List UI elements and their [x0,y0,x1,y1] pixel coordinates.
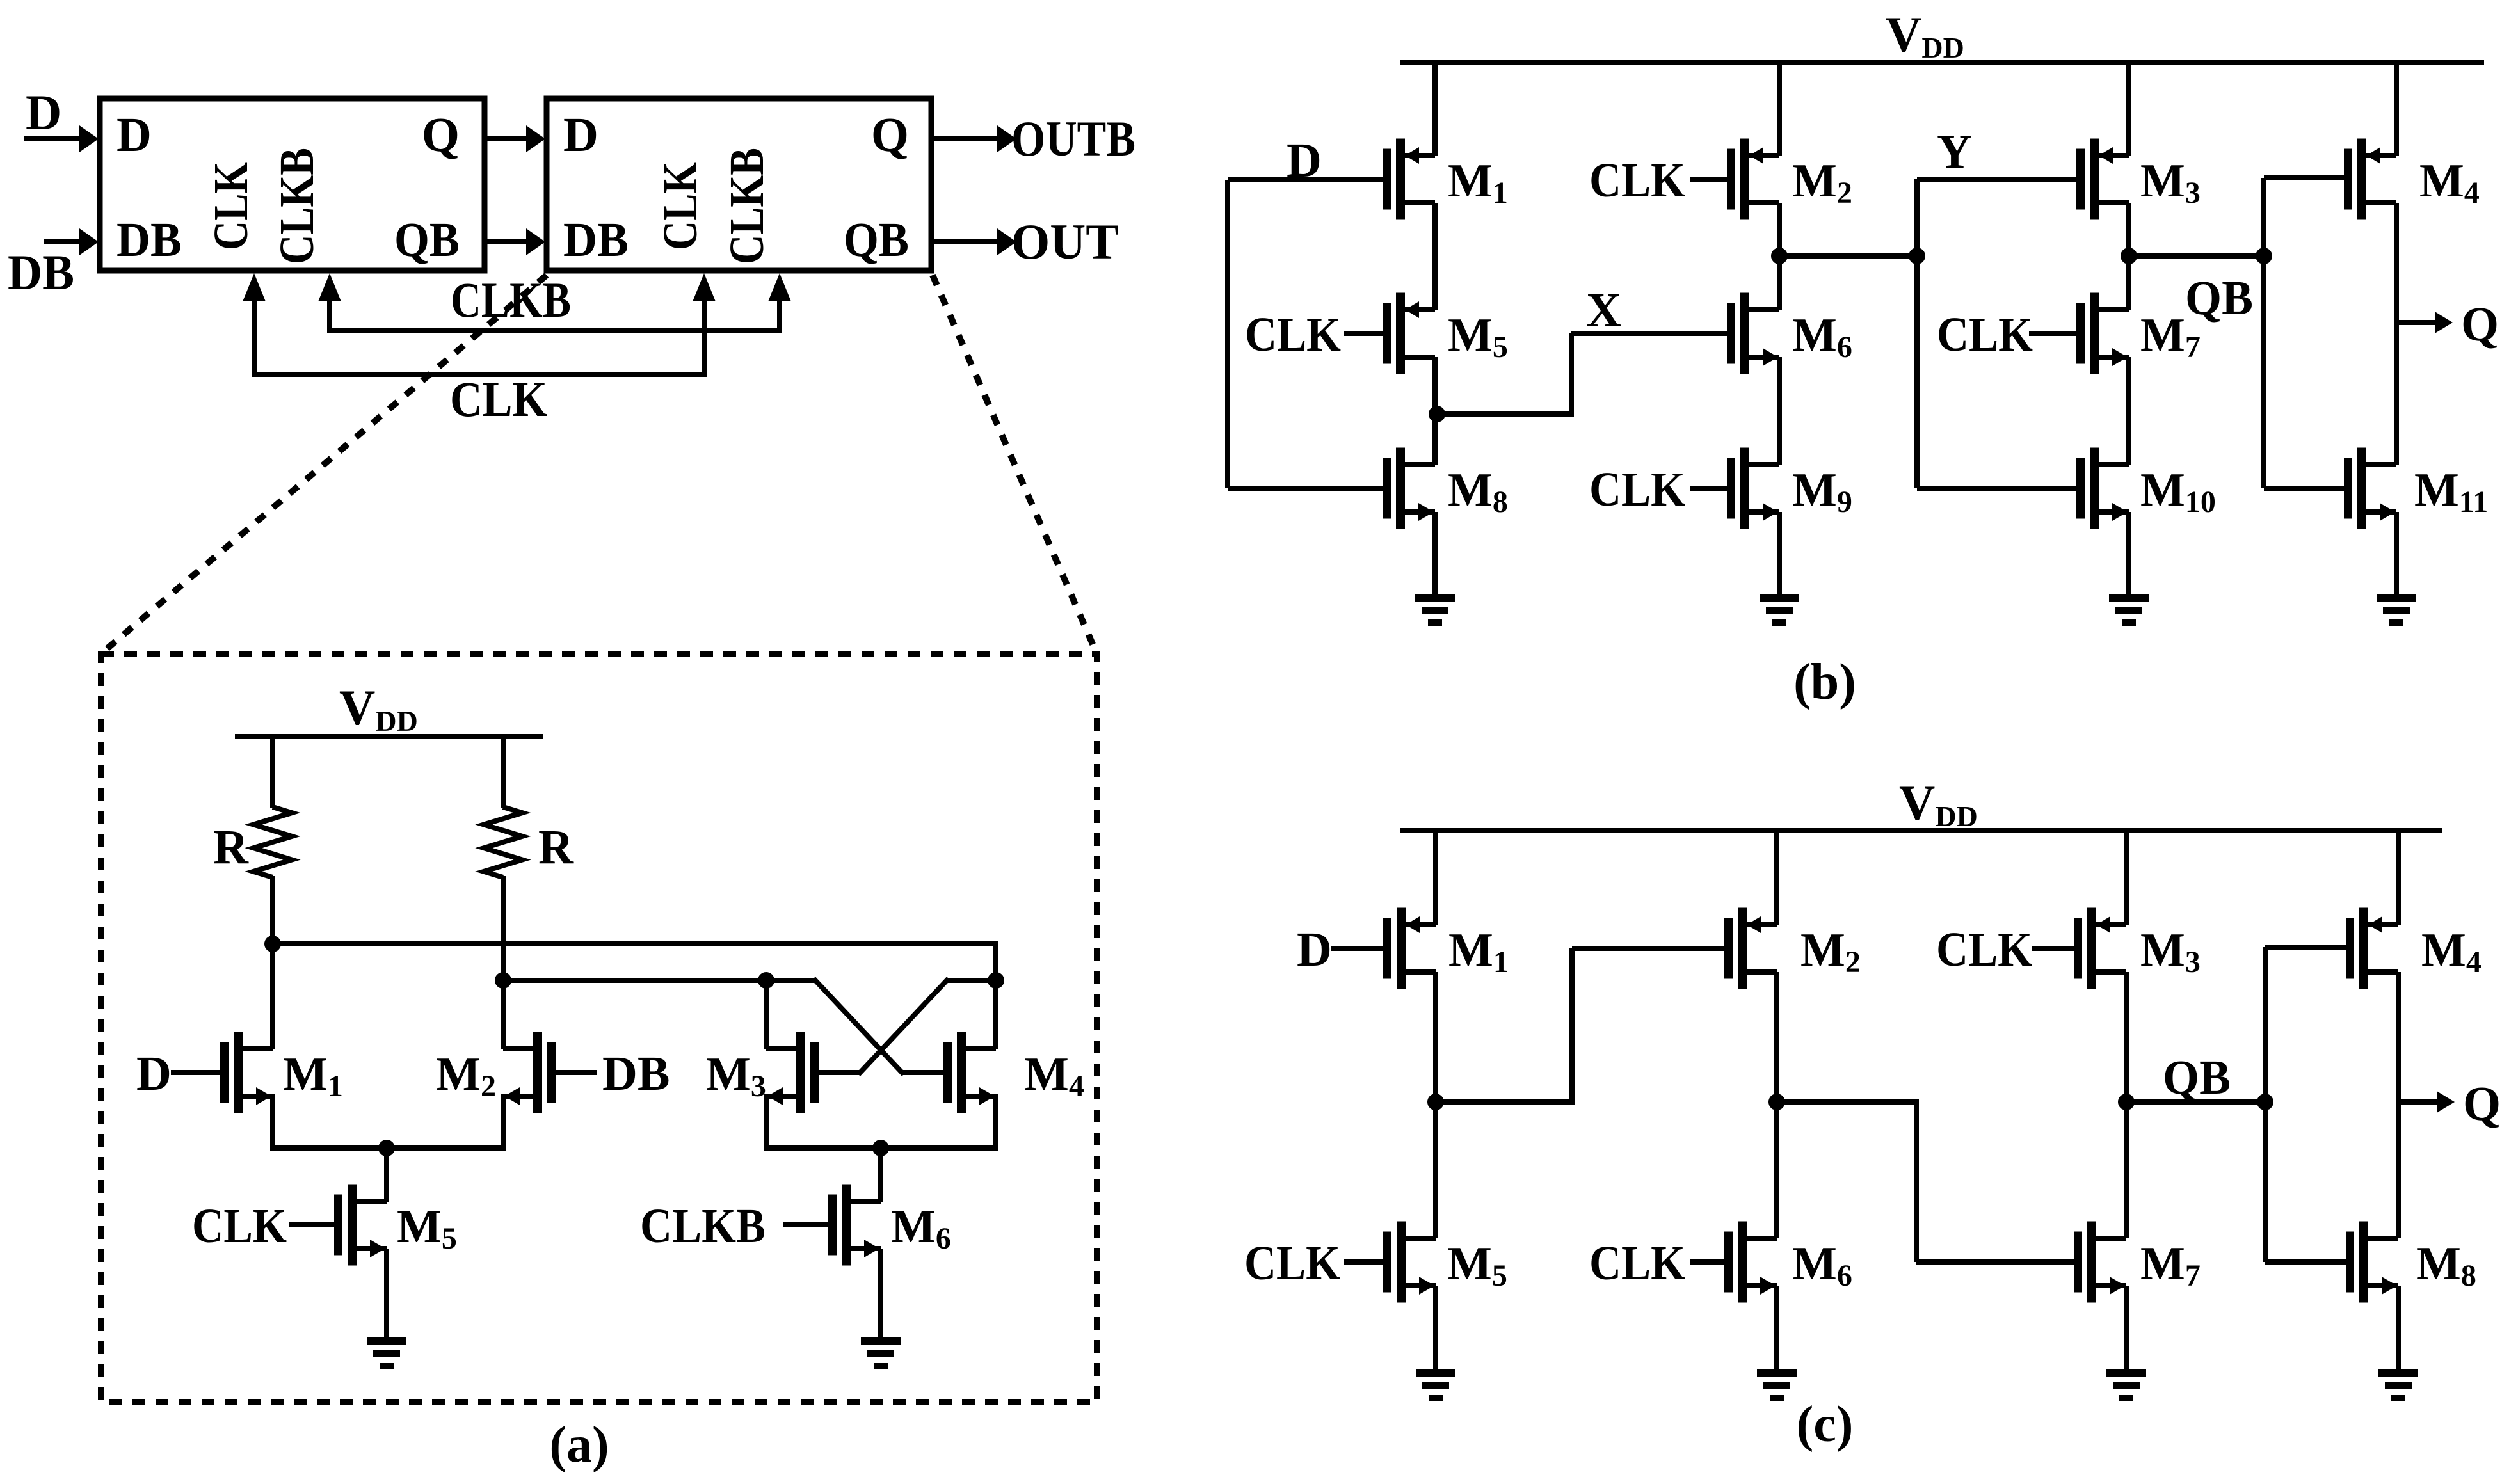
node X dot [1429,406,1445,422]
ground (M10 b) [2109,594,2149,626]
svg-text:D: D [1297,923,1332,977]
label M1 (a) [283,1048,343,1103]
svg-text:CLK: CLK [204,162,258,250]
ground (M9 b) [1760,594,1799,626]
transistor M2 (c) [1724,908,1777,989]
wire VDD to M2 source [1777,62,1782,156]
label M7 (b) [2140,309,2201,364]
ground (M8 c) [2378,1369,2418,1401]
wire M6 source to M9 drain [1777,357,1782,465]
transistor M1 (c) [1331,908,1436,989]
net label Q (b) [2461,298,2499,351]
svg-text:R: R [213,820,249,874]
svg-text:QB: QB [2163,1051,2231,1105]
input DB arrow [44,228,99,255]
svg-text:Q: Q [422,108,460,162]
node B dot [495,972,511,989]
svg-text:(c): (c) [1797,1396,1854,1453]
net label Y [1937,125,1972,179]
transistor M6 (c) [1690,1222,1777,1303]
wire VDD to R1 [270,737,275,808]
power rail VDD (b) [1400,60,2484,65]
node dot above M4 [988,972,1004,989]
node dot M1-M2 sources [378,1140,395,1156]
label M2 (a) [436,1048,496,1103]
latch block U1 [100,99,485,271]
svg-text:R: R [538,820,574,874]
wire VDD to M1 source [1432,62,1438,156]
svg-text:QB: QB [844,213,909,267]
label R (left) [213,820,249,874]
wire node to M2 gate (c) [1436,948,1727,1105]
wire VDD to M4 source (c) [2396,831,2401,925]
wire M2 drain to node (c) [1774,972,1779,1102]
svg-text:CLKB: CLKB [720,148,774,264]
transistor M7 (b) [2029,293,2129,374]
ground (M5) [367,1337,406,1369]
node dot below M2 [1771,248,1788,264]
net label CLK (b M2) [1589,154,1685,207]
net label CLK (c M5) [1244,1236,1340,1290]
svg-text:(a): (a) [549,1417,609,1473]
net label CLKB (routing) [451,272,571,328]
wire M3 drain to node QB [2126,203,2131,256]
wire VDD to M3 source (c) [2124,831,2129,925]
wire QB to M7 drain (c) [2124,1102,2129,1238]
pin label QB (U1) [394,213,460,267]
node QB dot right (c) [2257,1094,2273,1110]
svg-text:CLK: CLK [1589,463,1685,516]
wire M7 source to ground (c) [2124,1286,2129,1372]
net label D (input) [26,84,61,140]
svg-text:CLKB: CLKB [270,148,324,264]
wire QB(U1) to DB(U2) [485,228,545,255]
net label VDD (a) [339,680,418,737]
ground (M7 c) [2106,1369,2146,1401]
wire common source M3-M4 [766,1145,996,1151]
transistor M8 (b) [1228,448,1435,529]
node dot below M1 (c) [1427,1094,1444,1110]
input D arrow [24,125,99,152]
label M5 (a) [397,1201,457,1256]
transistor M6 (a) [783,1185,881,1266]
node A dot [264,936,281,952]
wire M2 drain to node Y1 [1777,203,1782,256]
svg-text:OUTB: OUTB [1011,111,1135,166]
wire QB node line (c) [2126,1099,2265,1105]
svg-text:CLK: CLK [654,162,707,250]
dashed box around circuit (a) [101,654,1097,1402]
net CLK routing [243,273,716,377]
net label DB (a) [602,1047,670,1101]
cross-coupling gate wire M4 to node above M3 [766,978,943,1074]
wire QB node line [2129,253,2264,259]
wire QB down to M11 gate [2264,256,2344,488]
wire Y down to M10 gate [1917,256,2078,488]
transistor M3 (c) [2032,908,2126,989]
svg-text:CLK: CLK [450,371,547,427]
svg-text:Q: Q [871,108,909,162]
svg-text:Q: Q [2463,1077,2501,1131]
label M1 (c) [1448,924,1509,979]
svg-text:D: D [136,1047,172,1101]
svg-text:CLK: CLK [1936,923,2032,977]
svg-text:X: X [1586,283,1621,337]
label M9 (b) [1792,464,1852,519]
pin label CLKB (U2) [720,148,774,264]
transistor M1 (b) [1228,139,1435,220]
svg-text:CLK: CLK [192,1199,287,1253]
wire node B to M2 drain [501,980,506,1049]
wire node to M6 drain (c) [1774,1102,1779,1238]
wire M3 drain [764,980,769,1049]
svg-text:CLKB: CLKB [640,1199,766,1253]
label M3 (c) [2140,924,2201,979]
dashed expansion line right [933,275,1096,651]
label M6 (c) [1792,1238,1852,1293]
svg-text:DB: DB [602,1047,670,1101]
wire QB to M4 gate [2264,178,2345,256]
wire M4 drain to M8 drain (c) [2396,972,2401,1238]
svg-text:DB: DB [116,213,182,267]
net label CLK (a) [192,1199,287,1253]
net label DB (input) [8,244,74,300]
pin label Q (U2) [871,108,909,162]
label M3 (a) [706,1048,766,1103]
node QB dot (M3) [2121,248,2137,264]
output Q arrow (c) [2398,1091,2455,1113]
wire node to M5 drain (c) [1433,1102,1438,1238]
svg-text:Q: Q [2461,298,2499,351]
output OUTB arrow [931,125,1016,152]
wire node B to M3 drain [503,978,766,983]
svg-text:DB: DB [8,244,74,300]
transistor M3 (b) [2076,139,2129,220]
label R (right) [538,820,574,874]
net label D (a) [136,1047,172,1101]
svg-text:CLKB: CLKB [451,272,571,328]
pin label Q (U1) [422,108,460,162]
net CLKB routing [319,273,791,333]
svg-text:CLK: CLK [1937,308,2033,362]
net label CLK (c M3) [1936,923,2032,977]
wire node X to M6 gate [1435,333,1727,417]
label M3 (b) [2140,155,2201,210]
wire M2 source down [501,1094,506,1151]
transistor M5 (a) [289,1185,387,1266]
wire VDD to M1 source (c) [1433,831,1438,925]
wire M5 source to ground (c) [1433,1286,1438,1372]
ground (M6) [861,1337,901,1369]
wire node QB to M7 drain [2126,256,2131,310]
pin label DB (U2) [563,213,629,267]
net label CLK (c M6) [1589,1236,1685,1290]
output OUT arrow [931,228,1016,255]
svg-text:OUT: OUT [1011,214,1119,269]
label M4 (a) [1024,1048,1084,1103]
svg-text:D: D [26,84,61,140]
pin label CLKB (U1) [270,148,324,264]
wire node X to M8 drain [1432,414,1438,465]
label M10 (b) [2140,464,2216,519]
transistor M4 (c) [2346,908,2398,989]
label M4 (b) [2419,155,2480,210]
node QB dot left (c) [2118,1094,2135,1110]
transistor M5 (c) [1344,1222,1436,1303]
pin label D (U2) [563,108,598,162]
label M8 (c) [2416,1238,2476,1293]
wire M9 source to ground [1777,512,1782,596]
transistor M3 (a) [766,1032,819,1113]
wire M4 drain to M11 drain [2394,203,2399,465]
transistor M8 (c) [2346,1222,2398,1303]
label M7 (c) [2140,1238,2201,1293]
wire node A to M4 drain column [273,941,996,980]
svg-text:CLK: CLK [1589,1236,1685,1290]
svg-text:(b): (b) [1793,654,1856,710]
net label CLK (routing) [450,371,547,427]
node dot below M2 (c) [1768,1094,1785,1110]
dashed expansion line left [104,275,547,651]
transistor M5 (b) [1344,293,1435,374]
svg-text:CLK: CLK [1245,308,1341,362]
resistor R1 [253,807,292,877]
net label QB (c) [2163,1051,2231,1105]
net label CLK (b M9) [1589,463,1685,516]
wire M5 source to ground [384,1249,389,1340]
ground (M11 b) [2377,594,2416,626]
wire tail node to M5 drain [384,1148,389,1202]
svg-text:Y: Y [1937,125,1972,179]
output Q arrow (b) [2396,312,2453,333]
label M5 (b) [1448,309,1508,364]
svg-text:QB: QB [2185,271,2253,325]
svg-text:QB: QB [394,213,460,267]
pin label CLK (U1) [204,162,258,250]
transistor M4 (a) [943,1032,996,1113]
wire R1 to node A [270,876,275,944]
ground (M8 b) [1415,594,1455,626]
ground (M6 c) [1757,1369,1797,1401]
label M2 (b) [1792,155,1852,210]
wire M10 source to ground [2126,512,2131,596]
caption (b) [1793,654,1856,710]
node Y dot [1909,248,1925,264]
wire M3 drain to QB (c) [2124,972,2129,1102]
transistor M4 (b) [2344,139,2396,220]
net label X [1586,283,1621,337]
wire Q(U1) to D(U2) [485,125,545,152]
wire M5 drain to node X [1432,357,1438,414]
wire QB down to M8 gate (c) [2265,1102,2347,1262]
node QB dot (right) [2256,248,2272,264]
pin label DB (U1) [116,213,182,267]
svg-text:DB: DB [563,213,629,267]
wire QB up to M4 gate (c) [2265,947,2347,1102]
feedback wire D to M8 gate [1228,180,1384,488]
wire M3 source down [764,1094,769,1151]
wire VDD to M3 source [2126,62,2131,156]
wire M6 source to ground [878,1249,883,1340]
wire M1 drain to M5 source [1432,203,1438,310]
wire M7 source to M10 drain [2126,357,2131,465]
net label QB (b) [2185,271,2253,325]
wire M8 source to ground [1432,512,1438,596]
wire VDD to M4 source [2394,62,2399,156]
caption (c) [1797,1396,1854,1453]
ground (M5 c) [1416,1369,1455,1401]
wire common source M1-M2 [273,1145,503,1151]
label M6 (a) [891,1201,951,1256]
transistor M11 (b) [2344,448,2396,529]
transistor M1 (a) [171,1032,273,1113]
wire node A to M1 drain [270,944,275,1049]
wire node to M7 gate (c) [1777,1099,2074,1262]
label M1 (b) [1448,155,1508,210]
label M8 (b) [1448,464,1508,519]
net label CLK (b M5) [1245,308,1341,362]
label M6 (b) [1792,309,1852,364]
wire VDD to M2 source (c) [1774,831,1779,925]
wire node Y [1779,253,1917,259]
svg-text:D: D [116,108,152,162]
pin label CLK (U2) [654,162,707,250]
label M5 (c) [1447,1238,1507,1293]
node dot M3-M4 sources [872,1140,889,1156]
net label VDD (b) [1886,6,1964,64]
label M2 (c) [1800,924,1861,979]
wire M1 source down [270,1094,275,1151]
net label OUT [1011,214,1119,269]
transistor M2 (a) [503,1032,597,1113]
caption (a) [549,1417,609,1473]
wire M6 source to ground (c) [1774,1286,1779,1372]
wire R2 to node B [501,876,506,983]
wire VDD to R2 [501,737,506,808]
svg-text:CLK: CLK [1589,154,1685,207]
wire M8 source to ground (c) [2396,1286,2401,1372]
transistor M7 (c) [2074,1222,2126,1303]
node dot above M3 [758,972,774,989]
transistor M6 (b) [1727,293,1779,374]
pin label QB (U2) [844,213,909,267]
wire M4 source down [993,1094,998,1151]
wire tail node to M6 drain [878,1148,883,1202]
pin label D (U1) [116,108,152,162]
wire M11 source to ground [2394,512,2399,596]
transistor M9 (b) [1690,448,1779,529]
power rail VDD (a) [235,734,543,739]
cross-coupling gate wire M3 to node above M4 [819,978,996,1074]
label M11 (b) [2414,464,2488,519]
net label OUTB [1011,111,1135,166]
net label VDD (c) [1899,775,1978,833]
wire M1 drain to node (c) [1433,972,1438,1102]
resistor R2 [484,807,522,877]
power rail VDD (c) [1400,828,2442,833]
svg-text:D: D [563,108,598,162]
wire node to M6 drain [1777,256,1782,310]
latch block U2 [547,99,931,271]
net label CLKB (a) [640,1199,766,1253]
wire Y to M3 gate [1917,179,2078,256]
net label D (c) [1297,923,1332,977]
transistor M10 (b) [2076,448,2129,529]
wire M4 drain [993,980,998,1049]
label M4 (c) [2421,924,2482,979]
net label CLK (b M7) [1937,308,2033,362]
svg-text:CLK: CLK [1244,1236,1340,1290]
net label Q (c) [2463,1077,2501,1131]
transistor M2 (b) [1690,139,1779,220]
svg-text:D: D [1287,134,1322,187]
net label D (b) [1287,134,1322,187]
